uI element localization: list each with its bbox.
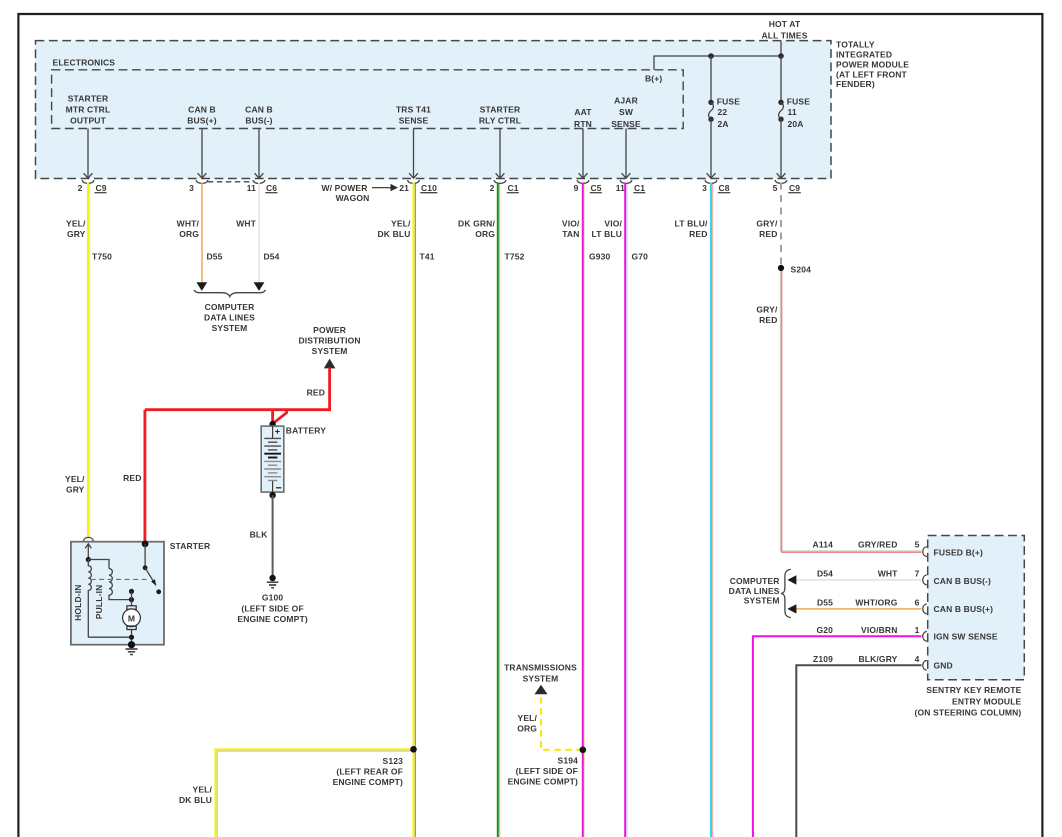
svg-text:VIO/: VIO/	[604, 218, 622, 228]
starter ground symbol	[126, 649, 138, 655]
svg-text:TRS T41: TRS T41	[396, 104, 431, 114]
svg-text:C8: C8	[719, 183, 730, 193]
svg-text:YEL/: YEL/	[391, 218, 411, 228]
svg-text:ALL TIMES: ALL TIMES	[761, 31, 807, 41]
pin arrow AAT RTN	[579, 129, 588, 179]
arrow D55 from computer data lines	[787, 604, 796, 613]
connector C5 pin9 cup	[577, 180, 589, 183]
fuse F22 symbol	[708, 100, 713, 105]
svg-text:TRANSMISSIONS: TRANSMISSIONS	[504, 663, 577, 673]
svg-text:RED: RED	[689, 229, 707, 239]
node junction fuse11 top	[778, 53, 784, 59]
wire motor to ground	[88, 630, 131, 645]
fuse F22 arrow down	[707, 119, 716, 178]
motor M brush bottom	[127, 626, 136, 630]
svg-text:ENGINE COMPT): ENGINE COMPT)	[237, 614, 307, 624]
svg-text:RED: RED	[123, 473, 141, 483]
svg-text:CAN B: CAN B	[245, 104, 273, 114]
svg-text:11: 11	[788, 107, 797, 117]
svg-text:C1: C1	[508, 183, 519, 193]
svg-text:GRY: GRY	[67, 229, 86, 239]
svg-text:SYSTEM: SYSTEM	[212, 323, 248, 333]
svg-text:7: 7	[915, 568, 920, 578]
svg-text:(LEFT REAR OF: (LEFT REAR OF	[336, 767, 403, 777]
pin 1 IGN SW SENSE	[923, 631, 927, 641]
svg-text:DK BLU: DK BLU	[179, 795, 212, 805]
svg-text:C6: C6	[266, 183, 277, 193]
svg-text:D54: D54	[817, 568, 833, 578]
wire YEL/ORG dashed to transmissions system	[541, 696, 583, 750]
fuse F11 arrow down	[777, 119, 786, 178]
node S123 splice	[410, 746, 417, 753]
svg-text:FUSE: FUSE	[787, 96, 810, 106]
svg-text:FUSE: FUSE	[717, 96, 740, 106]
svg-text:YEL/: YEL/	[66, 218, 86, 228]
arrow transmissions system	[535, 685, 548, 694]
pin arrow AJAR SW SENSE	[622, 129, 631, 179]
wire GRY/RED dashed segment below C9	[780, 183, 782, 266]
svg-text:HOLD-IN: HOLD-IN	[73, 584, 83, 620]
svg-text:SW: SW	[619, 107, 634, 117]
svg-text:GRY: GRY	[66, 485, 85, 495]
svg-text:RLY CTRL: RLY CTRL	[479, 115, 521, 125]
svg-text:S123: S123	[383, 756, 404, 766]
svg-text:HOT AT: HOT AT	[769, 19, 801, 29]
connector C8 pin3 cup	[705, 180, 717, 183]
starter ground node	[128, 641, 135, 648]
connector cap on yellow wire at starter	[83, 537, 93, 541]
wire BLK battery to ground	[272, 495, 274, 576]
connector pin3 cup	[196, 180, 208, 183]
svg-text:(LEFT SIDE OF: (LEFT SIDE OF	[516, 766, 578, 776]
wire G930 VIO/TAN vertical	[582, 183, 584, 837]
svg-text:C1: C1	[634, 183, 645, 193]
battery BT1 minus mark	[276, 487, 281, 489]
arrow D54 from computer data lines	[787, 575, 796, 584]
fuse F22 wire top	[710, 56, 712, 100]
svg-text:RED: RED	[759, 229, 777, 239]
svg-text:LT BLU/: LT BLU/	[675, 218, 708, 228]
svg-text:BLK/GRY: BLK/GRY	[859, 654, 898, 664]
svg-text:W/ POWER: W/ POWER	[321, 183, 367, 193]
svg-text:20A: 20A	[788, 119, 804, 129]
wire D54 WHT vertical top	[258, 183, 260, 284]
svg-text:WHT: WHT	[878, 568, 898, 578]
svg-text:YEL/: YEL/	[193, 785, 213, 795]
dashed mechanical link	[91, 578, 149, 580]
svg-text:GRY/: GRY/	[756, 304, 778, 314]
svg-text:STARTER: STARTER	[170, 541, 211, 551]
ground G100 symbol	[267, 582, 279, 588]
svg-text:5: 5	[773, 183, 778, 193]
svg-text:POWER MODULE: POWER MODULE	[836, 59, 909, 69]
starter motor assembly box	[71, 542, 164, 645]
svg-text:WHT/: WHT/	[177, 218, 200, 228]
svg-text:BUS(+): BUS(+)	[187, 115, 216, 125]
arrow power distribution system	[324, 359, 336, 369]
svg-text:DATA LINES: DATA LINES	[204, 312, 255, 322]
wire to pull-in coil	[88, 560, 109, 569]
svg-text:ELECTRONICS: ELECTRONICS	[53, 57, 116, 67]
svg-text:22: 22	[718, 107, 728, 117]
svg-text:ENGINE COMPT): ENGINE COMPT)	[333, 777, 403, 787]
coil HOLD-IN	[88, 560, 91, 638]
svg-text:T750: T750	[92, 252, 112, 262]
svg-text:WHT/ORG: WHT/ORG	[855, 597, 897, 607]
svg-text:YEL/: YEL/	[65, 474, 85, 484]
svg-text:OUTPUT: OUTPUT	[70, 115, 106, 125]
pin arrow CAN B BUS(-)	[255, 129, 264, 179]
svg-text:ENTRY MODULE: ENTRY MODULE	[952, 696, 1022, 706]
svg-text:2: 2	[78, 183, 83, 193]
svg-text:CAN B: CAN B	[188, 104, 216, 114]
svg-text:11: 11	[247, 183, 256, 193]
battery BT1 body	[261, 426, 284, 492]
svg-text:(ON STEERING COLUMN): (ON STEERING COLUMN)	[915, 708, 1022, 718]
svg-text:S204: S204	[791, 264, 812, 274]
wire LT BLU/RED vertical	[710, 183, 712, 837]
svg-text:C9: C9	[789, 183, 800, 193]
connector C9 pin5 cup	[775, 180, 787, 183]
svg-text:SENTRY KEY REMOTE: SENTRY KEY REMOTE	[926, 685, 1021, 695]
svg-text:RTN: RTN	[574, 119, 592, 129]
motor M brush top	[127, 606, 136, 610]
svg-text:TOTALLY: TOTALLY	[836, 40, 875, 50]
wire T41 YEL/DK BLU vertical	[412, 183, 414, 837]
battery BT1 negative node	[269, 492, 275, 498]
svg-text:S194: S194	[558, 755, 579, 765]
svg-text:SYSTEM: SYSTEM	[523, 674, 559, 684]
svg-text:WHT: WHT	[236, 218, 256, 228]
svg-text:BATTERY: BATTERY	[286, 425, 326, 435]
svg-text:CAN B BUS(+): CAN B BUS(+)	[934, 604, 994, 614]
svg-text:11: 11	[616, 183, 625, 193]
pin 7 CAN B BUS(-)	[923, 575, 927, 585]
svg-text:BLK: BLK	[250, 529, 269, 539]
svg-text:MTR CTRL: MTR CTRL	[66, 104, 111, 114]
svg-text:G100: G100	[262, 592, 284, 602]
dashed link between pin3 and pin11 connectors	[208, 181, 253, 183]
svg-text:G20: G20	[816, 625, 833, 635]
wire Z109 BLK/GRY into SKREEM	[796, 665, 921, 837]
fuse F11 symbol	[778, 100, 783, 105]
node red feed at starter top	[142, 541, 149, 548]
pin arrow up inside starter	[85, 544, 91, 560]
fuse F11 wire top	[780, 56, 782, 100]
wire G70 VIO/LT BLU vertical	[624, 183, 626, 837]
svg-text:GRY/: GRY/	[756, 218, 778, 228]
svg-text:IGN SW SENSE: IGN SW SENSE	[934, 632, 998, 642]
svg-text:ORG: ORG	[517, 724, 537, 734]
svg-text:INTEGRATED: INTEGRATED	[836, 50, 892, 60]
svg-text:TAN: TAN	[562, 229, 579, 239]
pin 4 GND	[923, 660, 927, 670]
svg-text:GND: GND	[934, 661, 953, 671]
svg-text:(AT LEFT FRONT: (AT LEFT FRONT	[836, 69, 908, 79]
wire G20 VIO/BRN into SKREEM	[753, 636, 922, 837]
svg-text:DISTRIBUTION: DISTRIBUTION	[298, 335, 360, 345]
wire B+ bus horizontal	[654, 56, 781, 70]
svg-text:C10: C10	[421, 183, 437, 193]
pin 6 CAN B BUS(+)	[923, 604, 927, 614]
svg-text:2: 2	[490, 183, 495, 193]
node motor ground junction	[129, 635, 134, 640]
svg-text:M: M	[128, 614, 135, 624]
svg-text:ORG: ORG	[475, 229, 495, 239]
svg-text:21: 21	[399, 183, 409, 193]
module U1a ELECTRONICS inner box	[52, 70, 684, 129]
wire A114 GRY/RED down to SKREEM	[780, 268, 921, 551]
svg-text:WAGON: WAGON	[336, 193, 370, 203]
svg-text:9: 9	[574, 183, 579, 193]
svg-text:AAT: AAT	[574, 107, 592, 117]
svg-text:G70: G70	[632, 252, 649, 262]
svg-text:FUSED B(+): FUSED B(+)	[934, 548, 983, 558]
node S194 splice	[580, 747, 587, 754]
svg-text:C5: C5	[591, 183, 602, 193]
svg-text:FENDER): FENDER)	[836, 79, 875, 89]
motor M circle	[123, 609, 141, 627]
svg-text:COMPUTER: COMPUTER	[205, 302, 255, 312]
wire S123 branch YEL/DK BLU left and down	[216, 749, 414, 837]
pin arrow TRS T41 SENSE	[409, 129, 418, 179]
connector C1 pin11 cup	[620, 180, 632, 183]
svg-text:LT BLU: LT BLU	[592, 229, 622, 239]
coil PULL-IN	[109, 569, 132, 600]
svg-text:BUS(-): BUS(-)	[245, 115, 272, 125]
svg-text:DATA LINES: DATA LINES	[729, 586, 780, 596]
connector C6 pin11 cup	[253, 180, 265, 183]
svg-text:STARTER: STARTER	[68, 94, 109, 104]
node junction fuse22 top	[708, 53, 714, 59]
connector C1 pin2 cup	[494, 180, 506, 183]
svg-text:5: 5	[915, 540, 920, 550]
node S204 splice	[778, 265, 784, 271]
svg-text:ENGINE COMPT): ENGINE COMPT)	[508, 776, 578, 786]
svg-text:SENSE: SENSE	[399, 115, 429, 125]
svg-text:VIO/: VIO/	[562, 218, 580, 228]
wire D54 WHT into SKREEM	[796, 579, 922, 581]
svg-text:T41: T41	[420, 252, 435, 262]
module U1 TIPM box (Totally Integrated Power Module)	[36, 41, 832, 179]
svg-text:A114: A114	[813, 540, 834, 550]
svg-text:COMPUTER: COMPUTER	[730, 576, 780, 586]
node hold-in junction	[86, 557, 91, 562]
svg-text:RED: RED	[759, 315, 777, 325]
svg-text:(LEFT SIDE OF: (LEFT SIDE OF	[241, 603, 303, 613]
motor M nodes above	[129, 589, 134, 594]
wire RED battery feed	[145, 368, 330, 544]
svg-text:1: 1	[915, 625, 920, 635]
wire D55 WHT/ORG vertical top	[201, 183, 203, 284]
svg-text:CAN B BUS(-): CAN B BUS(-)	[934, 576, 992, 586]
svg-text:4: 4	[915, 654, 920, 664]
svg-text:STARTER: STARTER	[480, 104, 521, 114]
svg-text:DK BLU: DK BLU	[377, 229, 410, 239]
battery BT1 plus mark	[275, 429, 280, 434]
connector C10 pin21 cup	[408, 180, 420, 183]
svg-text:YEL/: YEL/	[518, 713, 538, 723]
wire hot-at-all-times drop	[780, 42, 782, 57]
svg-text:GRY/RED: GRY/RED	[858, 540, 897, 550]
svg-text:T752: T752	[505, 252, 525, 262]
svg-text:D55: D55	[817, 597, 833, 607]
switch solenoid contact	[144, 544, 146, 568]
svg-text:ORG: ORG	[179, 229, 199, 239]
svg-text:SYSTEM: SYSTEM	[312, 346, 348, 356]
wire D55 WHT/ORG into SKREEM	[796, 608, 922, 610]
svg-text:SYSTEM: SYSTEM	[744, 596, 780, 606]
ground G100 node	[269, 575, 275, 581]
svg-text:PULL-IN: PULL-IN	[94, 585, 104, 620]
pin 5 FUSED B(+)	[923, 547, 927, 557]
brace computer data lines	[781, 569, 791, 617]
svg-text:RED: RED	[307, 388, 325, 398]
svg-text:2A: 2A	[718, 119, 729, 129]
connector C9 pin2 cup	[82, 180, 94, 183]
battery BT1 positive node	[269, 421, 275, 427]
wire T750 YEL/GRY vertical	[87, 183, 89, 539]
svg-text:DK GRN/: DK GRN/	[458, 218, 495, 228]
pin arrow STARTER RLY CTRL	[496, 129, 505, 179]
pin arrow STARTER MTR CTRL OUTPUT	[84, 129, 93, 179]
svg-text:B(+): B(+)	[645, 74, 662, 84]
svg-text:3: 3	[702, 183, 707, 193]
svg-text:C9: C9	[96, 183, 107, 193]
svg-text:AJAR: AJAR	[614, 95, 638, 105]
wire T752 DK GRN/ORG vertical	[497, 183, 499, 837]
svg-text:6: 6	[915, 597, 920, 607]
svg-text:D54: D54	[264, 252, 280, 262]
svg-text:D55: D55	[207, 252, 223, 262]
arrow D54 to computer data lines	[254, 282, 265, 291]
brace under D55 D54 arrows	[194, 290, 266, 297]
pin arrow CAN B BUS(+)	[198, 129, 207, 179]
module SKREEM box	[928, 536, 1025, 680]
svg-text:SENSE: SENSE	[611, 119, 641, 129]
battery BT1 internal plates	[272, 426, 274, 492]
svg-text:Z109: Z109	[813, 654, 833, 664]
svg-text:POWER: POWER	[313, 325, 346, 335]
svg-text:G930: G930	[589, 252, 611, 262]
svg-text:VIO/BRN: VIO/BRN	[861, 625, 897, 635]
svg-text:3: 3	[189, 183, 194, 193]
arrow D55 to computer data lines	[196, 282, 207, 291]
